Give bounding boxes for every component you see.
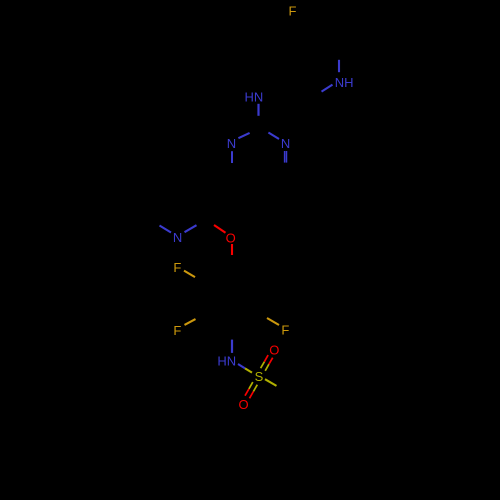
wire S=O lower double bond line A oxygen half [245,389,249,396]
svg-text:F: F [173,323,181,338]
svg-text:HN: HN [245,89,264,104]
wire F upper-left to aryl stub [184,271,195,278]
wire N-S bond blue half [238,364,245,368]
wire S to phenyl carbon stub [265,379,277,386]
svg-text:F: F [289,3,297,18]
wire N-S bond sulfur half [245,368,252,372]
wire N up-right ring stub [185,225,197,232]
wire F right to aryl stub [267,318,279,325]
wire pyrimidine N3 up-left diagonal stub [268,133,279,140]
svg-text:N: N [281,136,290,151]
svg-text:NH: NH [335,75,354,90]
svg-text:S: S [255,369,264,384]
svg-text:F: F [281,323,289,338]
wire S=O lower double bond line B oxygen half [250,392,254,399]
wire aryl down to sulfonamide N stub [231,340,233,353]
wire HN down to pyrimidine C2 stub [257,104,259,116]
wire F lower-left to aryl stub [185,319,196,325]
wire S=O upper double bond line A sulfur half [261,362,265,369]
wire ring carbon to ether O stub [214,225,226,233]
svg-text:O: O [238,397,248,412]
svg-text:HN: HN [217,354,236,369]
wire S=O upper double bond line B sulfur half [265,364,269,371]
wire N3=C4 double bond vertical stubs [284,151,286,163]
wire O down to aryl stub [231,244,233,255]
svg-text:F: F [173,260,181,275]
wire pyrimidine N1 up-right diagonal stub [238,133,249,138]
wire S=O lower double bond line B sulfur half [253,385,257,392]
wire N-C vertical stub above piperidine NH [338,60,340,72]
wire N1 down vertical stub [231,151,233,163]
wire N-methyl stub (tetrahydropyridine N) [160,226,172,233]
wire S=O upper double bond line A oxygen half [264,355,268,362]
svg-text:O: O [269,343,279,358]
svg-text:N: N [173,230,182,245]
wire S=O lower double bond line A sulfur half [249,382,253,389]
svg-text:N: N [227,136,236,151]
svg-text:O: O [226,230,236,245]
wire S=O upper double bond line B oxygen half [269,358,273,365]
wire NH to ring carbon down-left stub [322,85,333,92]
